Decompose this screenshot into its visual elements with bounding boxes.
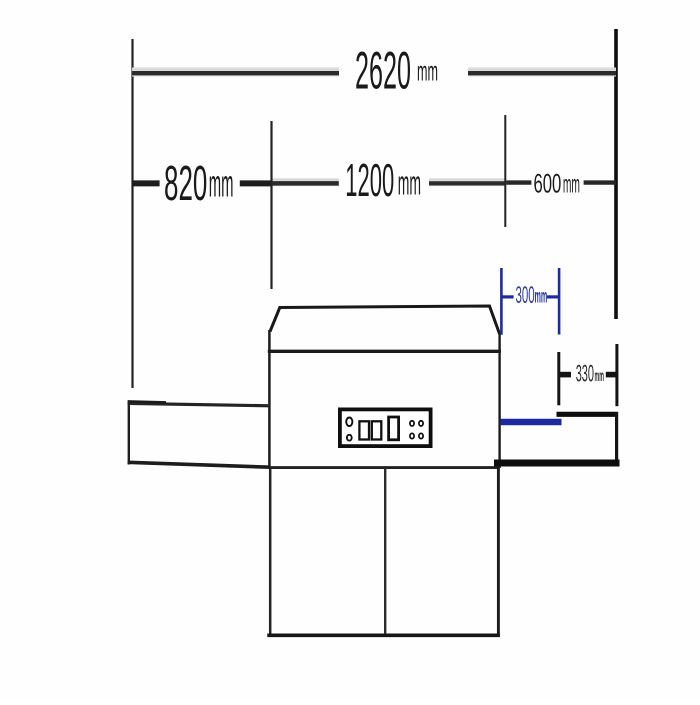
svg-text:mm: mm — [595, 366, 604, 385]
svg-text:600: 600 — [534, 169, 562, 199]
svg-text:330: 330 — [576, 361, 594, 388]
svg-text:mm: mm — [417, 55, 438, 87]
svg-text:300: 300 — [516, 281, 535, 308]
svg-text:mm: mm — [535, 287, 548, 308]
svg-text:2620: 2620 — [355, 40, 411, 100]
svg-text:1200: 1200 — [345, 154, 394, 206]
svg-text:mm: mm — [209, 163, 234, 205]
svg-text:mm: mm — [398, 163, 421, 202]
svg-text:820: 820 — [164, 158, 207, 212]
svg-text:mm: mm — [563, 172, 580, 199]
